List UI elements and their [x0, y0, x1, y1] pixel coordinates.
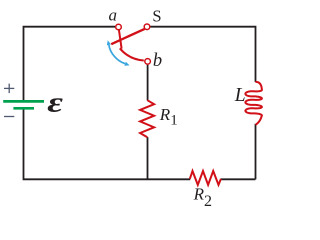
switch contact a circle	[116, 24, 122, 30]
inductor L coil	[245, 82, 261, 124]
wire bottom-left segment	[24, 108, 191, 179]
svg-text:b: b	[153, 51, 162, 71]
switch contact b arc	[120, 48, 144, 60]
blue arrow upper head	[107, 40, 111, 45]
wire bottom-right segment	[221, 178, 256, 180]
switch contact b circle	[145, 59, 151, 65]
svg-text:1: 1	[170, 113, 178, 129]
battery emf short plate	[13, 107, 34, 110]
svg-text:S: S	[152, 7, 161, 26]
battery plus sign	[4, 84, 14, 94]
resistor R2 zigzag	[190, 171, 221, 185]
battery emf long plate	[3, 100, 44, 103]
switch blade	[111, 29, 144, 44]
blue arrow lower head	[124, 62, 129, 66]
battery minus sign	[4, 116, 14, 118]
svg-text:2: 2	[204, 193, 212, 208]
switch pivot S circle	[144, 24, 150, 30]
wire middle branch (b to R1 to bottom)	[147, 65, 149, 180]
wire top-left segment	[24, 27, 116, 101]
resistor R1 zigzag	[140, 100, 154, 137]
svg-text:R: R	[193, 185, 205, 204]
svg-text:a: a	[109, 6, 118, 25]
wire right lower segment	[255, 124, 257, 180]
svg-text:ε: ε	[47, 87, 63, 119]
wire top-right segment	[150, 27, 255, 82]
svg-text:L: L	[234, 85, 246, 106]
switch contact a stub	[119, 30, 122, 49]
svg-text:R: R	[159, 105, 171, 124]
blue throw arrow curve	[109, 45, 125, 64]
